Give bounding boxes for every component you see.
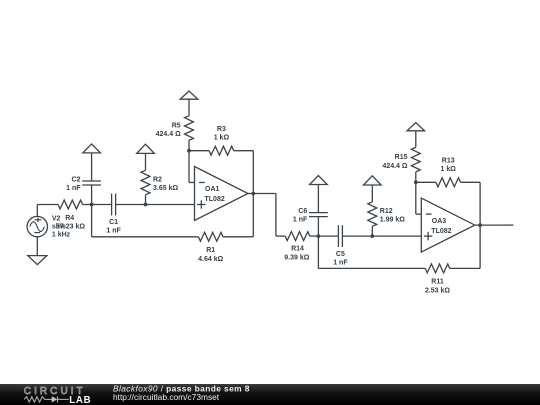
svg-text:C1: C1 — [109, 219, 118, 226]
svg-text:R3: R3 — [217, 126, 226, 133]
svg-text:3.65 kΩ: 3.65 kΩ — [153, 185, 178, 192]
svg-text:R14: R14 — [291, 246, 304, 253]
svg-text:R5: R5 — [172, 122, 181, 129]
svg-text:1 nF: 1 nF — [333, 259, 348, 266]
svg-text:OA1: OA1 — [205, 186, 220, 193]
svg-text:424.4 Ω: 424.4 Ω — [156, 131, 181, 138]
svg-text:1 kΩ: 1 kΩ — [214, 134, 230, 141]
svg-text:1 kHz: 1 kHz — [52, 232, 71, 239]
svg-text:LAB: LAB — [69, 395, 91, 405]
svg-text:TL082: TL082 — [205, 196, 225, 203]
svg-text:R12: R12 — [380, 208, 393, 215]
svg-text:OA3: OA3 — [432, 218, 447, 225]
svg-text:1.99 kΩ: 1.99 kΩ — [380, 217, 405, 224]
svg-text:1 nF: 1 nF — [293, 217, 308, 224]
svg-text:R11: R11 — [431, 279, 444, 286]
svg-text:C6: C6 — [298, 208, 307, 215]
svg-text:1 nF: 1 nF — [106, 228, 121, 235]
svg-text:C5: C5 — [336, 251, 345, 258]
svg-text:1 kΩ: 1 kΩ — [441, 166, 457, 173]
svg-text:C2: C2 — [72, 176, 81, 183]
svg-text:424.4 Ω: 424.4 Ω — [382, 163, 407, 170]
svg-text:1 nF: 1 nF — [66, 185, 81, 192]
svg-text:57.23 kΩ: 57.23 kΩ — [56, 224, 85, 231]
svg-text:http://circuitlab.com/c73mset: http://circuitlab.com/c73mset — [113, 392, 220, 402]
svg-text:R2: R2 — [153, 176, 162, 183]
svg-text:4.64 kΩ: 4.64 kΩ — [198, 256, 223, 263]
svg-text:R15: R15 — [395, 154, 408, 161]
svg-text:V2: V2 — [52, 216, 61, 223]
svg-text:9.39 kΩ: 9.39 kΩ — [284, 254, 309, 261]
svg-text:R1: R1 — [206, 247, 215, 254]
svg-text:R13: R13 — [442, 157, 455, 164]
svg-text:R4: R4 — [65, 215, 74, 222]
svg-text:TL082: TL082 — [431, 228, 451, 235]
svg-text:2.53 kΩ: 2.53 kΩ — [425, 288, 450, 295]
